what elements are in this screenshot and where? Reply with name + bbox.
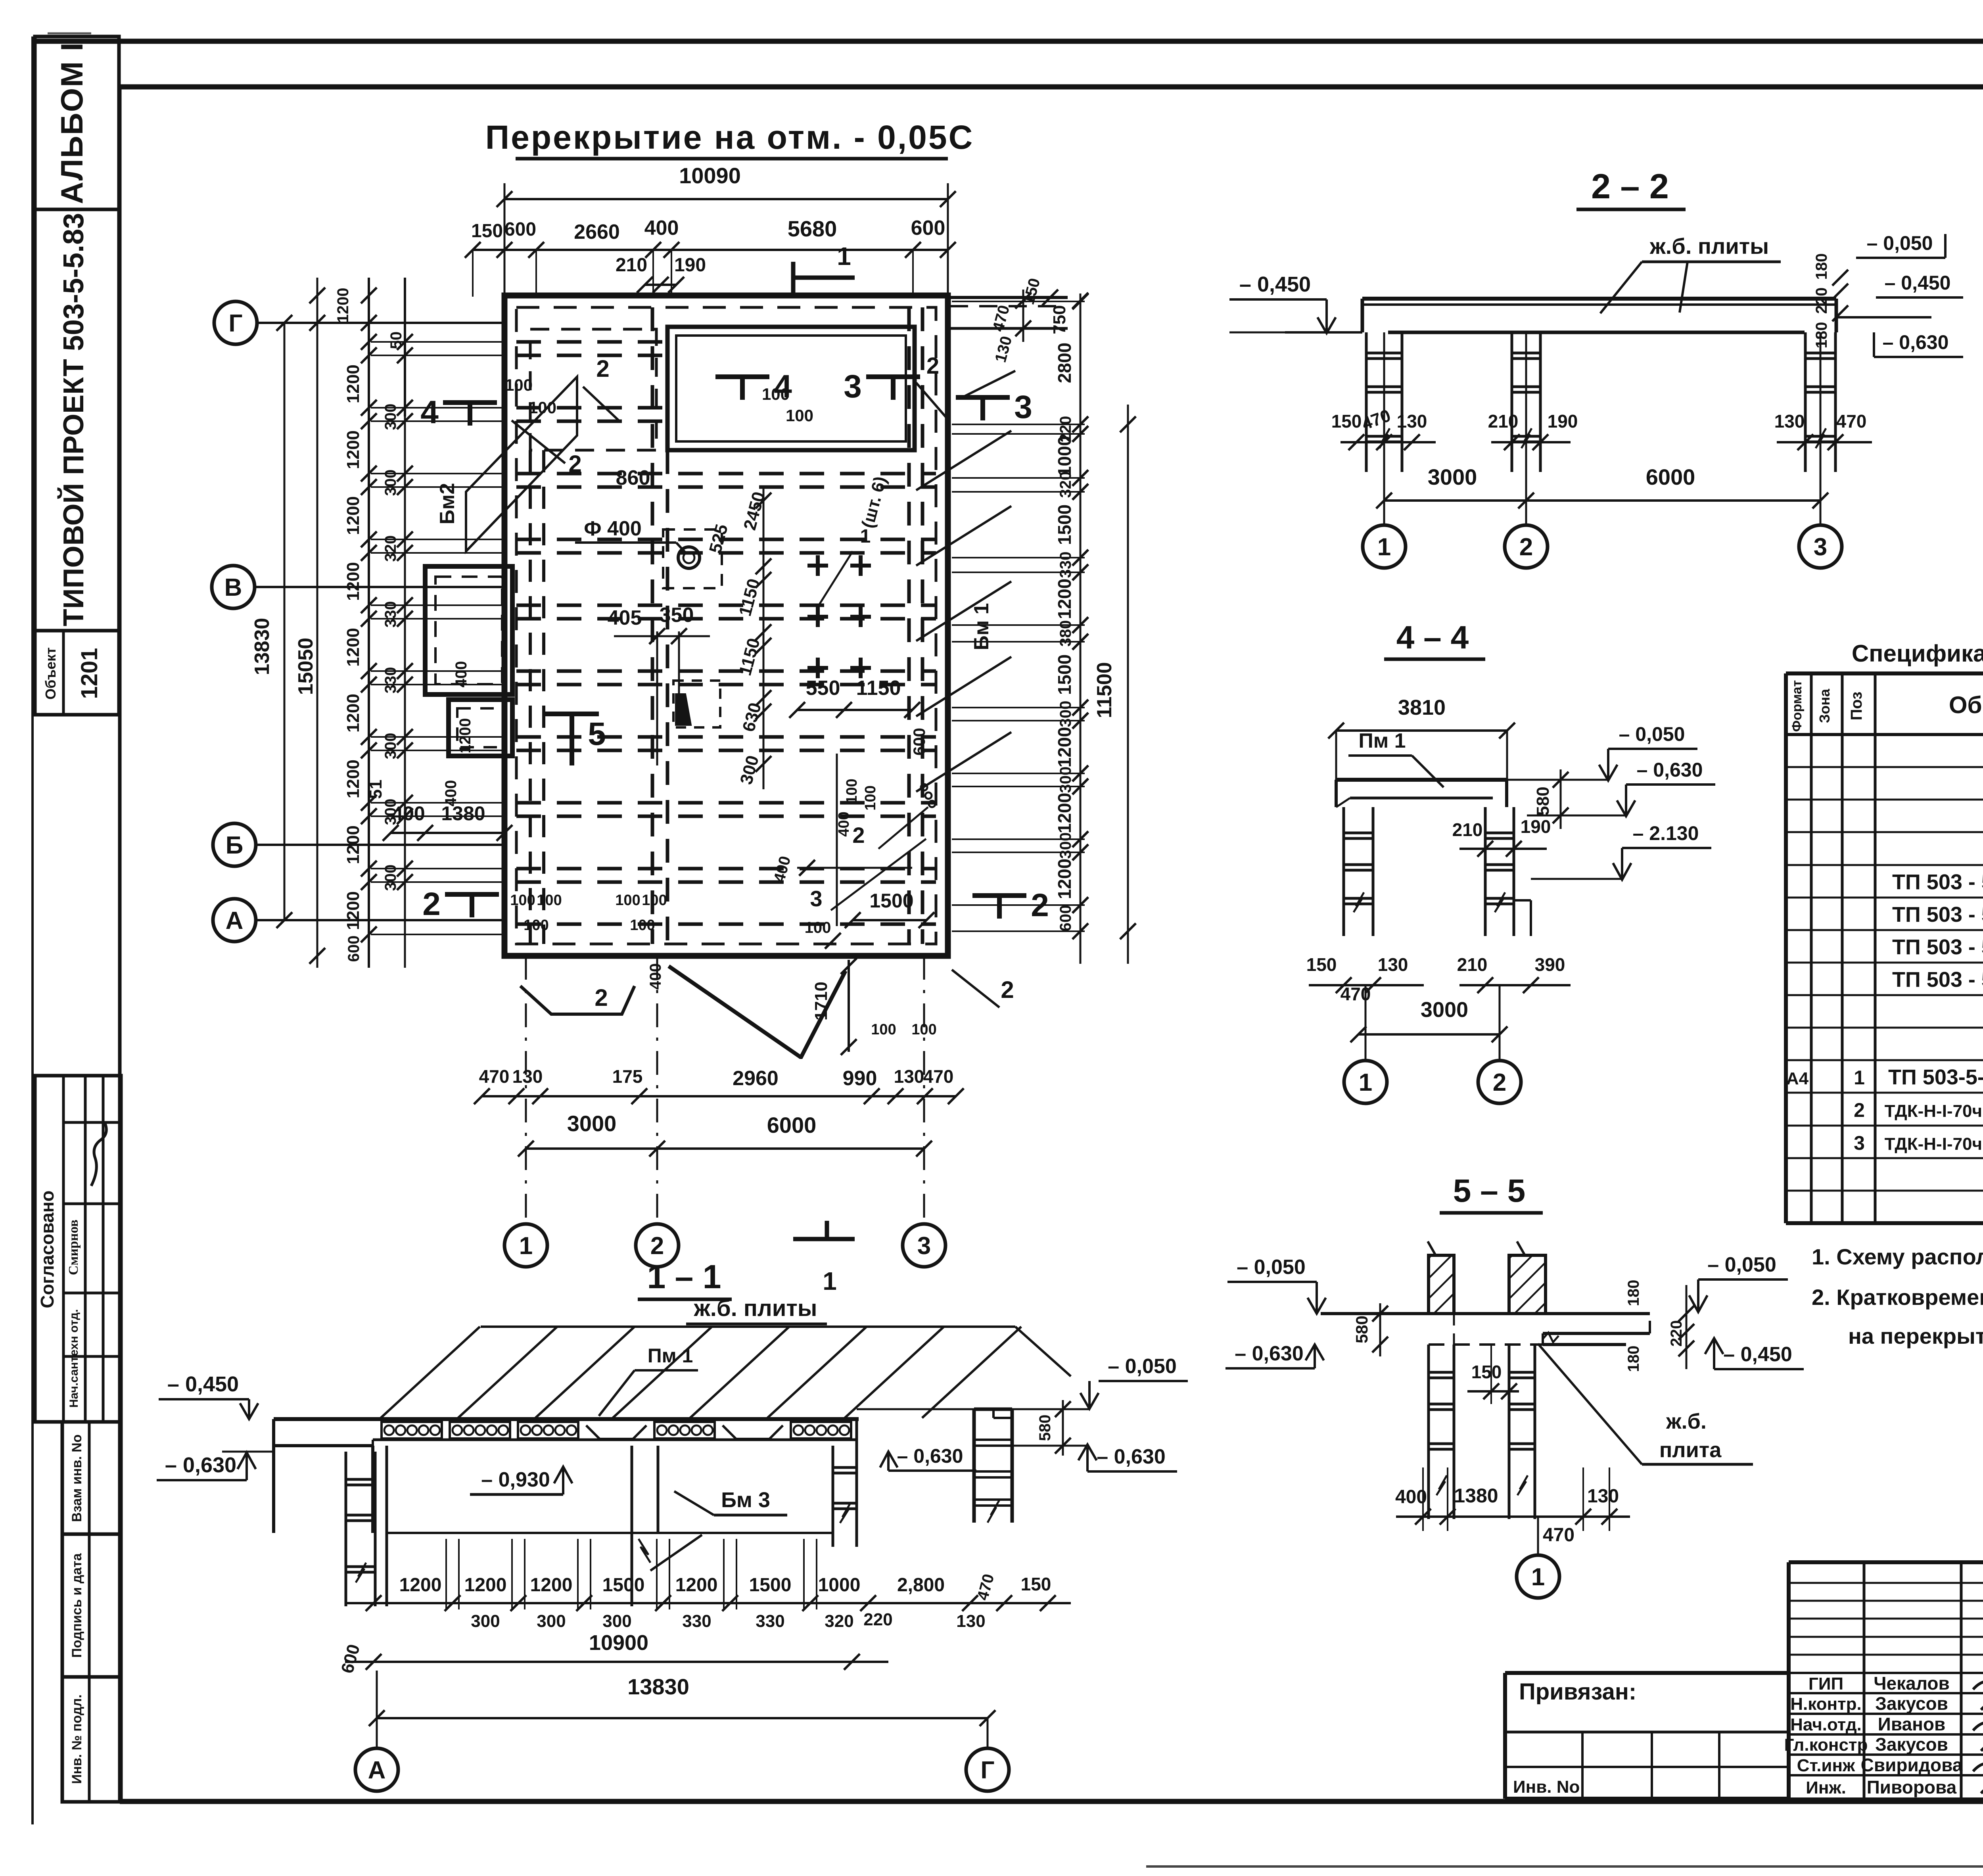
svg-text:1200: 1200 — [1054, 727, 1075, 767]
svg-text:150: 150 — [1331, 411, 1362, 432]
svg-text:400: 400 — [644, 217, 679, 240]
svg-text:Закусов: Закусов — [1875, 1693, 1948, 1714]
svg-text:470: 470 — [479, 1066, 510, 1087]
svg-text:– 0,450: – 0,450 — [1239, 272, 1311, 296]
svg-text:330: 330 — [756, 1611, 784, 1631]
svg-text:100: 100 — [786, 406, 813, 425]
svg-text:– 0,050: – 0,050 — [1867, 232, 1933, 254]
svg-text:130: 130 — [894, 1066, 924, 1087]
svg-text:– 0,050: – 0,050 — [1237, 1256, 1306, 1279]
svg-text:ТП 503 - 5-5.83: ТП 503 - 5-5.83 — [1892, 870, 1983, 894]
svg-text:380: 380 — [1057, 620, 1074, 647]
svg-text:ТИПОВОЙ ПРОЕКТ 503-5-5.83: ТИПОВОЙ ПРОЕКТ 503-5-5.83 — [57, 213, 90, 626]
svg-text:1500: 1500 — [1054, 654, 1075, 695]
svg-text:1200: 1200 — [456, 718, 474, 754]
svg-text:100: 100 — [505, 376, 533, 394]
svg-text:3: 3 — [844, 368, 862, 405]
svg-text:Чекалов: Чекалов — [1874, 1673, 1950, 1694]
svg-text:1200: 1200 — [343, 694, 363, 733]
svg-text:130: 130 — [512, 1066, 543, 1087]
svg-text:3: 3 — [810, 886, 822, 911]
svg-text:300: 300 — [1057, 701, 1074, 727]
svg-text:– 0,630: – 0,630 — [1097, 1445, 1166, 1468]
svg-text:1: 1 — [1854, 1067, 1865, 1089]
svg-text:2,800: 2,800 — [897, 1575, 945, 1596]
svg-text:470: 470 — [1543, 1525, 1575, 1546]
svg-text:– 0,630: – 0,630 — [1637, 759, 1703, 781]
svg-text:1200: 1200 — [1054, 579, 1075, 619]
svg-text:210: 210 — [1488, 411, 1519, 432]
svg-text:330: 330 — [382, 667, 399, 694]
svg-text:2: 2 — [422, 886, 441, 922]
svg-text:Инв. No: Инв. No — [1513, 1777, 1580, 1797]
svg-text:Иванов: Иванов — [1878, 1714, 1945, 1734]
svg-text:10090: 10090 — [679, 163, 741, 188]
svg-text:ж.б. плиты: ж.б. плиты — [694, 1295, 817, 1321]
svg-text:300: 300 — [382, 733, 399, 760]
svg-text:1: 1 — [519, 1232, 533, 1260]
svg-text:2800: 2800 — [1054, 343, 1075, 383]
svg-text:Пм 1: Пм 1 — [1358, 729, 1406, 752]
svg-text:Объект: Объект — [42, 647, 59, 700]
svg-text:2: 2 — [596, 355, 609, 382]
svg-text:100: 100 — [862, 785, 879, 810]
svg-text:400: 400 — [392, 802, 425, 825]
svg-text:Нач.сантехн отд.: Нач.сантехн отд. — [67, 1309, 81, 1408]
svg-text:ТДК-Н-I-70ч.II раздел III альб: ТДК-Н-I-70ч.II раздел III альбом 4 — [1885, 1101, 1983, 1121]
svg-text:1200: 1200 — [343, 364, 363, 403]
svg-text:Смирнов: Смирнов — [66, 1220, 81, 1275]
svg-text:320: 320 — [382, 535, 399, 562]
svg-text:320: 320 — [1057, 472, 1074, 498]
svg-text:580: 580 — [1352, 1316, 1371, 1343]
svg-text:– 0,050: – 0,050 — [1108, 1355, 1177, 1378]
svg-text:Согласовано: Согласовано — [37, 1191, 58, 1308]
svg-text:Обозначение: Обозначение — [1949, 692, 1983, 718]
svg-text:Взам инв. No: Взам инв. No — [69, 1434, 84, 1522]
svg-text:3000: 3000 — [567, 1111, 617, 1136]
svg-text:400: 400 — [453, 661, 470, 688]
svg-text:300: 300 — [382, 470, 399, 496]
svg-text:Б: Б — [226, 832, 244, 859]
svg-text:100: 100 — [844, 779, 860, 804]
svg-text:13830: 13830 — [627, 1674, 689, 1699]
svg-text:2: 2 — [1519, 533, 1533, 561]
svg-text:100: 100 — [615, 892, 640, 909]
svg-text:4 – 4: 4 – 4 — [1396, 620, 1469, 656]
svg-text:1200: 1200 — [343, 562, 363, 601]
svg-text:5680: 5680 — [788, 216, 837, 241]
svg-text:– 0,630: – 0,630 — [1235, 1342, 1304, 1365]
svg-text:3: 3 — [917, 1232, 931, 1260]
svg-text:180: 180 — [1625, 1346, 1642, 1372]
svg-text:– 0,630: – 0,630 — [1883, 331, 1949, 353]
svg-text:580: 580 — [1036, 1415, 1054, 1441]
svg-text:175: 175 — [612, 1066, 643, 1087]
svg-text:1200: 1200 — [675, 1575, 718, 1596]
svg-text:2: 2 — [1854, 1099, 1865, 1121]
svg-text:600: 600 — [911, 217, 945, 240]
svg-text:1200: 1200 — [343, 430, 363, 469]
svg-text:860: 860 — [616, 466, 650, 489]
svg-text:– 0,050: – 0,050 — [1619, 723, 1685, 745]
svg-text:ТП 503 - 5-5.83: ТП 503 - 5-5.83 — [1892, 968, 1983, 992]
svg-text:220: 220 — [863, 1610, 892, 1629]
svg-text:100: 100 — [630, 917, 655, 934]
svg-text:210: 210 — [1452, 819, 1483, 840]
svg-text:В: В — [224, 574, 242, 601]
svg-text:220: 220 — [1668, 1320, 1685, 1347]
svg-text:1: 1 — [837, 242, 851, 270]
svg-text:1200: 1200 — [399, 1575, 442, 1596]
svg-text:550: 550 — [806, 677, 840, 700]
svg-text:1. Схему расположения плит: 1. Схему расположения плит перекрытия ст… — [1812, 1244, 1983, 1269]
svg-text:Н.контр.: Н.контр. — [1790, 1694, 1862, 1714]
svg-text:на перекрытие 1200 кгс / м: на перекрытие 1200 кгс / м — [1848, 1324, 1983, 1348]
svg-text:100: 100 — [524, 917, 548, 934]
svg-text:1380: 1380 — [441, 802, 485, 825]
svg-text:100: 100 — [537, 892, 562, 909]
svg-text:1200: 1200 — [530, 1575, 573, 1596]
svg-text:600: 600 — [504, 219, 536, 240]
svg-text:1500: 1500 — [1054, 504, 1075, 545]
svg-text:Ст.инж: Ст.инж — [1797, 1756, 1855, 1775]
svg-text:150: 150 — [1021, 1574, 1051, 1594]
svg-text:1: 1 — [823, 1267, 837, 1295]
svg-text:600: 600 — [910, 728, 928, 756]
svg-text:1500: 1500 — [602, 1575, 645, 1596]
svg-text:50: 50 — [387, 332, 405, 349]
svg-text:6000: 6000 — [1646, 464, 1695, 489]
svg-text:Свиридова: Свиридова — [1861, 1755, 1963, 1775]
svg-text:1200: 1200 — [343, 760, 363, 798]
svg-text:100: 100 — [871, 1021, 896, 1038]
svg-text:1200: 1200 — [1054, 859, 1075, 899]
svg-text:100: 100 — [642, 892, 667, 909]
svg-text:130: 130 — [1774, 411, 1805, 432]
svg-text:1380: 1380 — [1454, 1485, 1498, 1507]
svg-text:1200: 1200 — [334, 288, 352, 323]
svg-text:15050: 15050 — [294, 638, 317, 695]
svg-text:330: 330 — [1057, 552, 1074, 578]
svg-text:3810: 3810 — [1398, 696, 1446, 719]
svg-text:1: 1 — [860, 526, 871, 547]
svg-text:1150: 1150 — [856, 677, 901, 700]
svg-text:5: 5 — [588, 716, 606, 752]
svg-text:400: 400 — [647, 963, 664, 990]
svg-text:Гл.констр: Гл.констр — [1784, 1735, 1868, 1755]
svg-text:300: 300 — [382, 404, 399, 430]
svg-text:Спецификация монолитного пер: Спецификация монолитного перекрытия на о… — [1852, 640, 1983, 667]
svg-text:2: 2 — [568, 451, 581, 477]
svg-text:– 0,630: – 0,630 — [897, 1445, 963, 1467]
svg-text:1200: 1200 — [1054, 793, 1075, 833]
svg-text:6000: 6000 — [767, 1113, 817, 1137]
svg-text:А: А — [368, 1757, 386, 1784]
svg-text:180: 180 — [1813, 322, 1830, 349]
svg-text:Поз: Поз — [1848, 692, 1865, 721]
svg-text:1000: 1000 — [1054, 436, 1075, 476]
svg-text:1200: 1200 — [343, 628, 363, 667]
svg-text:300: 300 — [602, 1611, 631, 1631]
svg-text:1000: 1000 — [818, 1575, 861, 1596]
svg-text:1201: 1201 — [77, 648, 102, 699]
svg-text:Бм 3: Бм 3 — [721, 1488, 770, 1512]
svg-text:2: 2 — [926, 353, 939, 379]
svg-text:2: 2 — [595, 984, 608, 1011]
svg-text:130: 130 — [1378, 954, 1408, 975]
svg-text:ж.б. плиты: ж.б. плиты — [1649, 234, 1769, 259]
svg-text:2960: 2960 — [733, 1067, 779, 1090]
svg-text:– 0,450: – 0,450 — [1723, 1343, 1792, 1366]
svg-text:300: 300 — [1057, 832, 1074, 859]
svg-text:4: 4 — [420, 394, 439, 430]
svg-text:100: 100 — [805, 919, 831, 936]
svg-text:300: 300 — [471, 1611, 500, 1631]
svg-text:400: 400 — [836, 811, 852, 836]
svg-text:470: 470 — [1836, 411, 1867, 432]
svg-text:ТП 503-5-5.83: ТП 503-5-5.83 — [1888, 1065, 1983, 1089]
svg-text:Инж.: Инж. — [1806, 1778, 1846, 1797]
svg-text:1: 1 — [1531, 1563, 1545, 1591]
svg-text:190: 190 — [674, 255, 706, 276]
svg-text:150: 150 — [1306, 954, 1337, 975]
svg-text:210: 210 — [616, 255, 647, 276]
svg-text:3000: 3000 — [1421, 998, 1468, 1022]
svg-text:Г: Г — [980, 1757, 994, 1784]
svg-text:3000: 3000 — [1428, 464, 1477, 489]
svg-text:2660: 2660 — [574, 221, 620, 244]
svg-text:350: 350 — [660, 604, 694, 627]
svg-text:Инв. № подл.: Инв. № подл. — [69, 1694, 84, 1784]
svg-text:1200: 1200 — [343, 891, 363, 930]
svg-text:150: 150 — [471, 221, 503, 242]
svg-text:390: 390 — [1535, 954, 1565, 975]
svg-text:2: 2 — [1001, 976, 1014, 1003]
svg-text:300: 300 — [537, 1611, 566, 1631]
svg-text:Зона: Зона — [1816, 689, 1833, 723]
svg-text:750: 750 — [1050, 305, 1069, 334]
svg-text:Пм 1: Пм 1 — [648, 1345, 693, 1367]
svg-text:1200: 1200 — [343, 496, 363, 535]
svg-text:1: 1 — [1377, 533, 1391, 561]
svg-text:– 2.130: – 2.130 — [1633, 822, 1699, 844]
svg-text:300: 300 — [1057, 767, 1074, 793]
svg-text:– 0,450: – 0,450 — [1885, 272, 1951, 294]
svg-text:2. Кратковременно действующая: 2. Кратковременно действующая нормативна… — [1812, 1285, 1983, 1310]
svg-text:180: 180 — [1625, 1280, 1642, 1306]
svg-text:ж.б.: ж.б. — [1666, 1410, 1707, 1433]
svg-text:Г: Г — [228, 310, 242, 337]
svg-text:Перекрытие на отм. - 0,05С: Перекрытие на отм. - 0,05С — [485, 119, 974, 156]
svg-text:990: 990 — [843, 1067, 877, 1090]
svg-text:Ф 400: Ф 400 — [584, 517, 642, 540]
svg-text:– 0,050: – 0,050 — [1707, 1253, 1776, 1276]
svg-text:ТДК-Н-I-70ч.II раздел III альб: ТДК-Н-I-70ч.II раздел III альбом 4 — [1885, 1134, 1983, 1154]
svg-text:2 – 2: 2 – 2 — [1591, 167, 1669, 206]
svg-text:Нач.отд.: Нач.отд. — [1790, 1715, 1862, 1734]
svg-text:180: 180 — [1813, 253, 1830, 280]
svg-text:190: 190 — [1521, 816, 1551, 837]
svg-text:– 0,450: – 0,450 — [167, 1372, 239, 1396]
svg-text:АЛЬБОМ I: АЛЬБОМ I — [54, 42, 89, 204]
svg-text:3: 3 — [1014, 389, 1032, 425]
svg-text:51: 51 — [366, 780, 385, 799]
svg-text:300: 300 — [382, 865, 399, 891]
svg-text:1500: 1500 — [869, 890, 913, 912]
svg-text:Пиворова: Пиворова — [1867, 1777, 1957, 1797]
svg-text:Закусов: Закусов — [1875, 1734, 1948, 1755]
svg-text:470: 470 — [923, 1066, 954, 1087]
svg-text:1200: 1200 — [464, 1575, 507, 1596]
svg-text:210: 210 — [1457, 954, 1488, 975]
svg-text:Формат: Формат — [1789, 680, 1805, 732]
svg-text:1500: 1500 — [749, 1575, 792, 1596]
svg-text:580: 580 — [1533, 786, 1553, 815]
svg-text:– 0,930: – 0,930 — [481, 1468, 550, 1491]
svg-text:5 – 5: 5 – 5 — [1453, 1173, 1525, 1209]
svg-text:2: 2 — [650, 1232, 664, 1260]
svg-text:А4: А4 — [1786, 1069, 1809, 1088]
svg-text:600: 600 — [345, 936, 362, 962]
svg-text:100: 100 — [510, 892, 535, 909]
svg-text:ТП 503 - 5-5.83: ТП 503 - 5-5.83 — [1892, 935, 1983, 959]
svg-text:13830: 13830 — [251, 618, 274, 675]
svg-text:Бм2: Бм2 — [436, 483, 459, 525]
svg-text:Привязан:: Привязан: — [1519, 1679, 1636, 1705]
svg-text:2: 2 — [1031, 887, 1049, 923]
svg-text:– 0,630: – 0,630 — [165, 1453, 236, 1477]
svg-text:1 – 1: 1 – 1 — [647, 1258, 721, 1295]
svg-text:100: 100 — [529, 398, 556, 417]
svg-text:3: 3 — [1854, 1132, 1865, 1154]
svg-text:130: 130 — [1397, 411, 1427, 432]
svg-text:ГИП: ГИП — [1808, 1674, 1843, 1694]
svg-text:ТП 503 - 5-5.83: ТП 503 - 5-5.83 — [1892, 903, 1983, 926]
svg-text:А: А — [226, 907, 244, 934]
svg-text:2: 2 — [1493, 1069, 1506, 1096]
svg-text:1710: 1710 — [811, 982, 831, 1020]
svg-text:10900: 10900 — [589, 1631, 648, 1655]
svg-text:600: 600 — [1057, 905, 1074, 932]
svg-text:330: 330 — [682, 1611, 711, 1631]
svg-text:100: 100 — [762, 385, 790, 403]
svg-text:1: 1 — [1359, 1069, 1372, 1096]
svg-text:405: 405 — [608, 606, 642, 629]
svg-text:190: 190 — [1548, 411, 1578, 432]
svg-text:1200: 1200 — [343, 825, 363, 864]
svg-text:11500: 11500 — [1093, 662, 1116, 718]
svg-text:2: 2 — [852, 823, 865, 848]
svg-text:3: 3 — [1814, 533, 1827, 561]
svg-text:320: 320 — [825, 1611, 853, 1631]
svg-text:Подпись и дата: Подпись и дата — [69, 1553, 84, 1658]
svg-text:150: 150 — [1471, 1362, 1502, 1382]
svg-text:130: 130 — [956, 1611, 985, 1631]
svg-text:220: 220 — [1813, 288, 1830, 314]
svg-text:330: 330 — [382, 601, 399, 628]
svg-text:Бм 1: Бм 1 — [970, 603, 993, 650]
svg-text:130: 130 — [1587, 1486, 1619, 1507]
svg-text:плита: плита — [1659, 1438, 1722, 1462]
